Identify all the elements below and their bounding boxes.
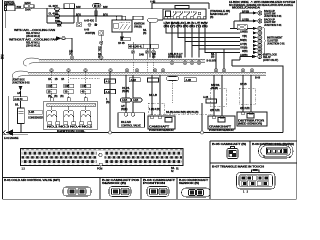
wire row3	[47, 22, 74, 24]
svg-text:JUNCTION C-01: JUNCTION C-01	[267, 42, 285, 45]
svg-text:1B: 1B	[48, 91, 51, 94]
svg-text:B-06: B-06	[255, 77, 261, 80]
shield dash-dot	[239, 88, 256, 104]
connector icon: cold air control valve	[63, 187, 91, 196]
svg-text:1B 1B: 1B 1B	[240, 83, 247, 86]
camshaft sensor wires	[152, 75, 160, 115]
svg-text:1 (B) 3 (B): 1 (B) 3 (B)	[149, 108, 160, 111]
svg-text:1-0B: 1-0B	[29, 111, 34, 114]
drop from fan relay to diamond	[121, 32, 123, 37]
connector icon: panel4 2-pin oval	[182, 188, 211, 197]
fuse row2	[54, 15, 60, 18]
svg-text:B-01 BR: B-01 BR	[207, 59, 216, 62]
svg-text:2(B) 1(B): 2(B) 1(B)	[210, 109, 220, 112]
svg-text:E-01 ENGINE: E-01 ENGINE	[4, 137, 19, 140]
svg-text:C4B: C4B	[82, 85, 87, 88]
wavy left end of upper band	[23, 58, 39, 66]
svg-text:(Y): (Y)	[69, 53, 72, 56]
svg-text:JOINT(B): JOINT(B)	[85, 32, 95, 35]
connector icon: panel3 2-pin	[147, 187, 169, 197]
svg-text:4-1B: 4-1B	[133, 99, 138, 102]
winding 2	[64, 106, 74, 121]
svg-text:1B 4B: 1B 4B	[118, 42, 125, 45]
back-up light rows	[230, 13, 253, 29]
svg-text:4-1B: 4-1B	[122, 99, 127, 102]
svg-text:B/W: B/W	[103, 6, 108, 9]
svg-text:C1B: C1B	[48, 85, 53, 88]
vertical tie x74 rows1-3	[73, 9, 75, 23]
E-07 pill + F-07 box small	[120, 37, 131, 41]
svg-text:A-05 4(Y): A-05 4(Y)	[84, 20, 94, 23]
svg-text:B-07 TRIANGLE MAKE IN TOUCH: B-07 TRIANGLE MAKE IN TOUCH	[212, 166, 264, 169]
label box A-10	[105, 90, 116, 94]
battery negative drop wire	[5, 11, 7, 28]
svg-text:A-10: A-10	[106, 91, 112, 94]
ground bus	[6, 132, 283, 134]
drop wire from pill	[95, 8, 97, 16]
svg-text:30A: 30A	[57, 24, 62, 27]
svg-text:GL 40(Y): GL 40(Y)	[49, 5, 59, 8]
oval 4-pin ignition coil connector	[259, 144, 294, 158]
left pill X-01	[148, 18, 159, 22]
svg-text:(B): (B)	[210, 16, 213, 19]
svg-text:3B: 3B	[65, 91, 68, 94]
svg-text:B/W: B/W	[76, 6, 81, 9]
svg-text:1/4B: 1/4B	[139, 54, 144, 57]
wires band to coil pins	[52, 72, 86, 98]
svg-text:(B)(B): (B)(B)	[121, 108, 128, 111]
svg-text:A-02 40: A-02 40	[14, 98, 23, 101]
shift-lock row	[240, 56, 252, 58]
svg-text:B/W: B/W	[17, 6, 22, 9]
shield dash-dot	[148, 103, 165, 114]
inline connector squares x96	[95, 11, 97, 13]
svg-text:GL 40(B): GL 40(B)	[49, 13, 59, 16]
wire from fan arrow down to band	[65, 38, 72, 57]
svg-text:A-1B: A-1B	[131, 79, 137, 82]
svg-text:MAIN: MAIN	[25, 2, 31, 5]
IAC valve wires	[126, 75, 133, 98]
svg-text:1B 1B 1B: 1B 1B 1B	[48, 78, 64, 81]
svg-text:L/W(B): L/W(B)	[240, 54, 248, 57]
svg-text:CONTROL VALVE: CONTROL VALVE	[121, 124, 141, 127]
svg-text:B/L: B/L	[15, 104, 19, 107]
svg-text:(JB-02 NO.1): (JB-02 NO.1)	[26, 45, 40, 48]
svg-text:(B) (B) (B): (B) (B) (B)	[48, 95, 64, 98]
shield dash-dot	[210, 88, 227, 106]
svg-text:POSITION SENSOR: POSITION SENSOR	[209, 129, 234, 132]
rings on upper band	[70, 56, 201, 65]
wavy left end of lower band	[12, 71, 28, 79]
svg-text:(B): (B)	[211, 56, 214, 59]
wire to ground bus left	[8, 96, 10, 133]
arrow down connector	[19, 86, 23, 91]
wire fuse to junction	[28, 8, 47, 10]
svg-text:(Y): (Y)	[98, 49, 101, 52]
svg-text:B(Y): B(Y)	[103, 13, 108, 16]
main fuse box 100A	[24, 5, 28, 8]
small box above relay	[175, 6, 189, 9]
svg-text:A-08: A-08	[203, 96, 209, 99]
label box under band	[184, 78, 196, 82]
svg-text:(B): (B)	[152, 56, 155, 59]
fan relay box	[112, 16, 143, 37]
condenser box	[18, 108, 25, 124]
svg-text:SENSOR (B): SENSOR (B)	[102, 182, 126, 185]
wire row1 to relay	[47, 8, 163, 10]
bottom pins	[48, 122, 52, 125]
svg-text:2(B) 1(B): 2(B) 1(B)	[240, 107, 250, 110]
svg-text:MODEL/CANADA: MODEL/CANADA	[232, 7, 260, 10]
svg-text:(B): (B)	[143, 32, 146, 35]
svg-text:C3B: C3B	[65, 85, 70, 88]
relay pin drop wires	[166, 22, 240, 71]
wire x110 band to ground bus	[109, 72, 111, 131]
svg-text:(B) (B): (B) (B)	[211, 87, 218, 90]
svg-text:NO.1 NO.3 NO.4 NO.2: NO.1 NO.3 NO.4 NO.2	[47, 125, 93, 128]
svg-text:IGNITION COIL: IGNITION COIL	[57, 130, 86, 133]
svg-text:(JUST ON AT): (JUST ON AT)	[263, 59, 278, 62]
svg-text:JUNCTION B-02: JUNCTION B-02	[12, 81, 30, 84]
svg-text:BR(B): BR(B)	[240, 39, 247, 42]
svg-text:(MED SENSOR): (MED SENSOR)	[238, 123, 262, 126]
wire battery to main fuse	[15, 8, 24, 10]
svg-text:B/Y(B): B/Y(B)	[242, 10, 249, 13]
svg-text:4B: 4B	[82, 91, 85, 94]
svg-text:B(Y): B(Y)	[76, 13, 81, 16]
row arrows: back-up 2	[253, 20, 258, 23]
bus junction circles	[108, 131, 111, 134]
svg-text:A-0B: A-0B	[186, 79, 192, 82]
connector pill C-01 top	[93, 4, 102, 8]
wire from shift-lock row looping to ground bus	[232, 57, 283, 133]
coil pin label boxes	[47, 84, 91, 93]
svg-text:A 4B: A 4B	[150, 1, 155, 4]
diode box with X	[237, 25, 247, 30]
instrument cluster arrow rows	[253, 27, 258, 54]
svg-text:SENSOR (B): SENSOR (B)	[179, 182, 199, 185]
ring contact nibs on band tops	[51, 59, 253, 73]
IAC box	[118, 113, 145, 128]
svg-text:(B): (B)	[106, 101, 109, 104]
oil pressure switch cluster	[78, 16, 96, 22]
svg-text:BTN: BTN	[55, 20, 60, 23]
svg-text:4B: 4B	[1, 57, 4, 60]
ring connectors above band	[131, 50, 134, 53]
svg-text:PCM: PCM	[97, 168, 102, 171]
svg-text:B/L(B)-DASH B(B) 4(B) B/L(B): B/L(B)-DASH B(B) 4(B) B/L(B)	[166, 111, 199, 114]
svg-text:A/C: A/C	[17, 92, 21, 95]
svg-text:BATTERY: BATTERY	[4, 3, 15, 6]
svg-text:JUNCTION P-01: JUNCTION P-01	[264, 24, 282, 27]
mini grid connector	[227, 147, 238, 159]
svg-text:SW (B): SW (B)	[134, 26, 142, 29]
svg-text:L/W(B): L/W(B)	[240, 30, 248, 33]
label box A-02	[13, 97, 27, 101]
wire row2	[47, 15, 112, 17]
top feed wire	[152, 3, 209, 9]
dashed stubs between bands	[133, 62, 154, 72]
label strip with ring connectors	[128, 42, 158, 59]
cooling fan connector arrow	[56, 36, 65, 40]
relay pins	[165, 16, 167, 19]
svg-text:A-10: A-10	[106, 80, 112, 83]
distributor sensor wires	[243, 75, 251, 112]
svg-text:1 2: 1 2	[243, 190, 249, 193]
dash link under lower band	[70, 78, 100, 80]
svg-text:4R 4L 4R 4L: 4R 4L 4R 4L	[129, 45, 143, 48]
main relay box	[163, 9, 206, 19]
svg-text:B/L L/B: B/L L/B	[149, 94, 157, 97]
label box A-1B under band	[129, 78, 140, 82]
big bottom-right connector	[237, 169, 276, 189]
ground symbol	[6, 129, 13, 136]
connector two-cell box	[64, 4, 75, 9]
svg-text:L/Y(B): L/Y(B)	[242, 18, 249, 21]
crankshaft sensor wires	[214, 75, 222, 116]
rings on lower band	[50, 69, 254, 73]
svg-text:100A: 100A	[25, 9, 31, 12]
node junction x47	[46, 9, 48, 23]
brace	[263, 27, 267, 55]
internal hatched bus bar	[47, 104, 96, 107]
fuse row3	[56, 22, 62, 25]
svg-text:Y(B): Y(B)	[242, 35, 247, 38]
svg-text:(B) (B) (B)(B): (B) (B) (B)(B)	[168, 56, 182, 59]
connector icon: camshaft sensor 2-pin	[109, 187, 131, 197]
svg-text:B-01 COLD AIR CONTROL VALVE (M: B-01 COLD AIR CONTROL VALVE (M/T)	[4, 179, 60, 182]
battery B+ box	[5, 5, 16, 11]
svg-text:POSITION SENSOR: POSITION SENSOR	[149, 129, 174, 132]
svg-text:CONDENSER: CONDENSER	[28, 117, 43, 120]
winding 1	[47, 106, 57, 121]
coil box	[44, 101, 98, 130]
svg-text:POSITION: POSITION	[143, 182, 166, 185]
winding 3	[81, 106, 91, 121]
black connector diamond below fan relay	[120, 37, 124, 42]
svg-text:(B) (B): (B) (B)	[122, 90, 129, 93]
svg-text:B-05 CAMSHAFT (B): B-05 CAMSHAFT (B)	[212, 143, 246, 146]
svg-text:W(B): W(B)	[242, 50, 248, 53]
fuse BTN row1	[54, 7, 60, 10]
svg-text:(B) (Y) (B) (B) (B) (Y) (B): (B) (Y) (B) (B) (B) (Y) (B)	[164, 25, 208, 28]
row arrows: back-up 1	[253, 12, 258, 15]
page border frame	[3, 0, 297, 199]
